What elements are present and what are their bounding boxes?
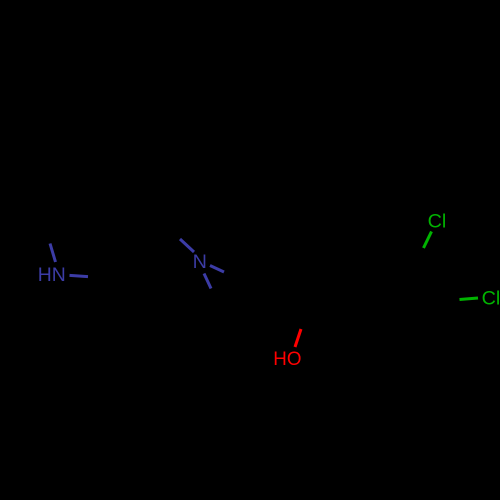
svg-text:N: N <box>193 251 207 273</box>
svg-text:HN: HN <box>38 264 66 286</box>
svg-text:Cl: Cl <box>482 288 500 310</box>
svg-text:Cl: Cl <box>428 211 447 233</box>
svg-text:HO: HO <box>273 348 301 370</box>
